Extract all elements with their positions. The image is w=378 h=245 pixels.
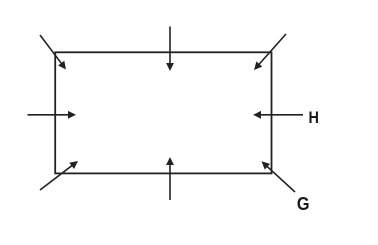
arrow top-left diagonal: [40, 35, 66, 70]
arrow bottom-left diagonal: [40, 161, 78, 190]
svg-text:H: H: [309, 109, 319, 127]
arrow bottom-right diagonal from G: [262, 161, 296, 192]
arrow left-middle: [28, 111, 77, 119]
arrow bottom-middle: [166, 157, 174, 200]
arrow right-middle toward H: [253, 111, 303, 119]
rectangle box: [55, 52, 271, 173]
arrow top-middle: [166, 27, 174, 72]
arrow top-right diagonal: [254, 34, 286, 70]
svg-text:G: G: [297, 193, 310, 214]
